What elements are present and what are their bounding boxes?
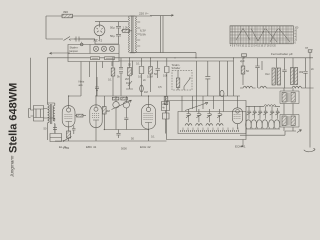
resistor mid band a bbox=[111, 68, 115, 76]
resistor mid band c bbox=[128, 67, 132, 76]
wire: speaker to transformer bbox=[44, 103, 55, 121]
variable cap shaft diagonal bbox=[185, 103, 208, 111]
tuning gang section 1 (circle with arrow) bbox=[113, 102, 119, 108]
cap mid band e bbox=[156, 69, 160, 79]
coil loops under trimmers bbox=[185, 124, 192, 126]
svg-text:Jungmann: Jungmann bbox=[10, 155, 15, 178]
switch mid band bbox=[126, 81, 133, 89]
svg-text:0,1: 0,1 bbox=[138, 75, 142, 79]
tube V3 EBC41 (oval) bbox=[90, 105, 102, 128]
wire: heater pair vertical bbox=[161, 16, 164, 53]
wire: drops below lamp box bbox=[81, 62, 112, 97]
svg-text:5000: 5000 bbox=[121, 147, 127, 151]
svg-text:50µ: 50µ bbox=[110, 34, 115, 38]
wire verticals middle band bbox=[113, 58, 167, 96]
transformer T1 secondary winding (right zigzag with taps) bbox=[135, 16, 137, 53]
resistor: filter choke between electrolytics bbox=[123, 29, 130, 32]
svg-text:50µ: 50µ bbox=[110, 26, 115, 30]
tube V5 ECH41 (oval) bbox=[232, 108, 242, 124]
svg-text:EBC 41: EBC 41 bbox=[86, 145, 97, 149]
capacitor at 97,88 bbox=[95, 77, 99, 96]
dial table bottom tick labels bbox=[230, 46, 277, 48]
capacitor under gang bbox=[124, 118, 128, 130]
trimmer row in dial box bbox=[186, 109, 222, 122]
wire: mains top loop bbox=[46, 16, 152, 39]
wire: osc section top with wavy coil bbox=[246, 105, 280, 107]
electrolytic above bottom-left box bbox=[53, 124, 57, 134]
wire: rectifier anode top bbox=[95, 22, 128, 39]
rail y=96 right part bbox=[168, 95, 232, 97]
svg-text:ECH 41: ECH 41 bbox=[235, 145, 246, 149]
small pilot ellipse bbox=[220, 90, 224, 96]
svg-text:Fernschalter µF: Fernschalter µF bbox=[271, 52, 293, 56]
resistor mid band d bbox=[149, 67, 153, 75]
transformer T2 output: primary loops bbox=[48, 105, 50, 123]
wire: B+ rail short with arrow into lamp box bbox=[50, 52, 71, 54]
electrolytic small oval mid bbox=[140, 85, 144, 92]
resistor: grid coupling between tubes bbox=[77, 114, 84, 117]
capacitor on bottom middle wire bbox=[116, 130, 120, 139]
svg-text:0,1: 0,1 bbox=[136, 62, 140, 66]
resistor pair above gang bbox=[112, 97, 119, 100]
verticals into dial box bbox=[182, 96, 224, 112]
junction dots on rails bbox=[68, 57, 311, 130]
resistor in lamp box lower right bbox=[105, 57, 115, 60]
capacitor right b bbox=[255, 66, 259, 88]
wire gang drops bbox=[116, 108, 126, 130]
svg-text:1782: 1782 bbox=[63, 146, 70, 150]
wire: under rectifier bbox=[81, 39, 119, 44]
svg-text:ECH 42: ECH 42 bbox=[140, 145, 151, 149]
tube V1 rectifier AZ41 (circle) bbox=[94, 25, 105, 36]
svg-text:2M: 2M bbox=[125, 77, 129, 81]
wires around IF transformers bbox=[284, 88, 293, 131]
middle rail y=96 bbox=[102, 95, 168, 97]
small labels mid band bbox=[104, 62, 168, 114]
resistor in pickup box bbox=[176, 78, 180, 88]
resistor left of gang bbox=[103, 107, 107, 115]
transformer T2 secondary loops bbox=[53, 106, 55, 122]
choke coil wavy on wire y=88 left bbox=[240, 86, 256, 88]
choke coil wavy on wire y=88 mid bbox=[258, 86, 269, 88]
dial cord table top right: grid bbox=[230, 26, 293, 44]
wire: V3 top bbox=[96, 96, 102, 107]
svg-text:1M: 1M bbox=[144, 90, 148, 94]
tuning gang shaft arrow bbox=[112, 100, 132, 109]
dial lamp box bbox=[68, 45, 119, 62]
right section verticals under rail bbox=[243, 58, 310, 88]
svg-text:220 V~: 220 V~ bbox=[139, 12, 149, 16]
wire V5 top bbox=[232, 96, 240, 129]
dial table right side labels bbox=[295, 28, 300, 45]
tuning gang section 2 bbox=[123, 102, 129, 108]
wire V4 top bbox=[148, 96, 150, 107]
tick row inside dial box bbox=[183, 128, 238, 131]
resistor right of V4 bbox=[164, 97, 168, 105]
capacitor C2 electrolytic 50uF (lower) bbox=[116, 34, 121, 44]
labels bottom middle bbox=[44, 127, 156, 151]
svg-text:10k: 10k bbox=[163, 74, 168, 78]
wire bottom middle bbox=[104, 130, 148, 142]
capacitor right b2 bbox=[282, 70, 286, 88]
wire: transformer to output tube bbox=[48, 123, 55, 140]
IF transformer block 1 (top right) bbox=[280, 91, 299, 104]
dial assembly inner box bbox=[178, 112, 246, 134]
svg-text:2µF: 2µF bbox=[240, 59, 245, 63]
wire y=88 right continue bbox=[269, 87, 292, 89]
svg-text:Osz.: Osz. bbox=[265, 72, 271, 76]
dial cord table diagonals bbox=[236, 28, 290, 42]
svg-text:Skalen-: Skalen- bbox=[70, 46, 79, 50]
antenna terminal top right bbox=[310, 50, 313, 59]
svg-text:1M: 1M bbox=[126, 81, 130, 85]
svg-text:ant.: ant. bbox=[79, 83, 84, 87]
svg-text:30k: 30k bbox=[299, 70, 304, 74]
svg-text:0,9A: 0,9A bbox=[140, 33, 146, 37]
wire: main rail full width bbox=[47, 57, 313, 59]
transformer T1 core bbox=[132, 16, 133, 53]
cap mid band f bbox=[165, 67, 169, 73]
fuse on rail at 244 bbox=[242, 54, 247, 57]
loudspeaker bbox=[34, 106, 44, 122]
wire: mains feed with arrow bbox=[150, 14, 174, 16]
capacitor C1 electrolytic 50uF (upper) bbox=[116, 22, 121, 34]
svg-text:390: 390 bbox=[63, 10, 68, 14]
svg-text:1,2k: 1,2k bbox=[123, 25, 129, 29]
svg-text:0,5: 0,5 bbox=[158, 85, 162, 89]
switch: mains on/off bbox=[64, 37, 71, 41]
bottom rail left bbox=[55, 140, 167, 142]
left block small boxes column x=161-172 bbox=[162, 102, 170, 111]
wire: left drop from rail x=30.5 bbox=[30, 58, 32, 110]
switch on bottom rail bbox=[64, 137, 72, 142]
transformer T1 power: primary winding (left zigzag) bbox=[128, 16, 130, 53]
wire: output tube cathode down bbox=[68, 126, 70, 132]
bottom left box bbox=[50, 134, 62, 142]
title Stella 648WM (vertical) bbox=[8, 83, 20, 178]
capacitor right d bbox=[303, 72, 307, 89]
verticals mid-right band bbox=[196, 58, 233, 112]
svg-text:4 5 6 7 8 9 10 11 12 13 14 15: 4 5 6 7 8 9 10 11 12 13 14 15 16 17 18 1… bbox=[230, 46, 277, 48]
svg-text:0,5M: 0,5M bbox=[147, 75, 153, 79]
switch in pickup box bbox=[184, 79, 190, 91]
lamp L3 bbox=[109, 46, 114, 51]
small labels right band bbox=[246, 67, 314, 76]
coil pair hatched (osc A) bbox=[272, 68, 275, 85]
tiny fuse holder on lamp box top bbox=[80, 43, 83, 46]
paper background bbox=[0, 0, 320, 179]
transformer T2 core bbox=[51, 104, 52, 124]
choke coil wavy on wire y=88 right bbox=[292, 86, 314, 88]
wire: output tube anode up bbox=[69, 96, 81, 108]
svg-text:lampen: lampen bbox=[70, 49, 79, 53]
speaker magnet bracket bbox=[29, 109, 31, 118]
IF transformer block 2 (lower right) bbox=[280, 115, 299, 128]
wire right bottom rails bbox=[240, 129, 285, 135]
svg-text:ca: ca bbox=[305, 46, 308, 50]
resistor right a bbox=[241, 66, 245, 74]
capacitor: coupling bbox=[72, 126, 76, 135]
wire: dial box right edge drop with arrow bbox=[241, 140, 243, 148]
resistor: cathode bias bbox=[67, 131, 71, 138]
wire: second rail right part bbox=[119, 60, 234, 62]
wire: left drop x=47.4 to output transformer bbox=[46, 58, 48, 103]
svg-text:Schalter: Schalter bbox=[172, 67, 181, 70]
tone cap box mid bbox=[139, 67, 144, 74]
tube V2 output EL41 (oval) bbox=[62, 106, 75, 127]
lamp L2 bbox=[101, 46, 106, 51]
resistor in lamp box lower left bbox=[91, 57, 100, 60]
capacitor on 207.8 bbox=[205, 76, 210, 79]
coil pair hatched (osc B) bbox=[291, 68, 294, 85]
wire: V3 bottom bbox=[95, 127, 97, 142]
svg-text:Stella 648WM: Stella 648WM bbox=[8, 83, 20, 153]
resistor: line-cord dropper on top wire bbox=[62, 14, 73, 18]
capacitor: mains filter at 77,38 bbox=[74, 37, 81, 42]
lamp L1 bbox=[93, 46, 98, 51]
capacitor mid band b bbox=[119, 67, 123, 73]
dashed box pickup switch bbox=[172, 71, 192, 91]
tall coil loops under right trimmers bbox=[246, 120, 280, 129]
svg-text:0,1: 0,1 bbox=[108, 78, 112, 82]
earth arc bottom right bbox=[304, 148, 315, 152]
wire: transformer top to mains label bbox=[130, 16, 135, 53]
svg-text:AZ 41: AZ 41 bbox=[94, 39, 103, 43]
wire far right vertical bbox=[309, 88, 311, 148]
pickup text block bbox=[172, 64, 181, 70]
trimmer row right of V5 (6 trimmers) bbox=[247, 106, 280, 118]
dial scale hatching bbox=[180, 130, 240, 132]
wire: B+ rail upper bbox=[130, 53, 196, 58]
tube V4 ECH42 (oval) bbox=[141, 104, 155, 129]
wavy coil on osc wire bbox=[264, 105, 276, 107]
svg-text:0,1: 0,1 bbox=[151, 135, 155, 139]
wire: IF block2 to down bbox=[285, 131, 296, 135]
small wiper arrow near 299,131 bbox=[297, 130, 302, 133]
dial assembly outer box bbox=[167, 101, 247, 140]
